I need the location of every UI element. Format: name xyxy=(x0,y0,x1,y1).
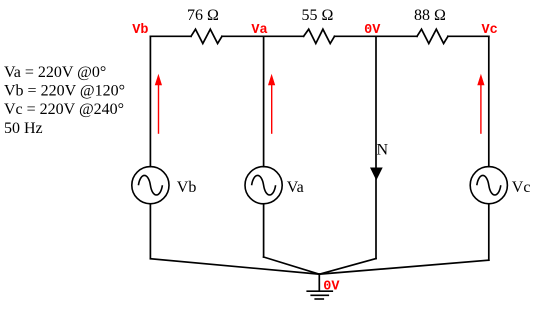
svg-text:88 Ω: 88 Ω xyxy=(414,7,446,24)
svg-text:Vb = 220V @120°: Vb = 220V @120° xyxy=(4,83,125,100)
wire neutral to ground junction xyxy=(319,259,376,275)
svg-text:N: N xyxy=(377,142,389,159)
wire Vc vertical lower xyxy=(488,204,490,260)
svg-text:Vb: Vb xyxy=(132,23,148,38)
resistor R2 55 ohm xyxy=(304,29,335,43)
svg-text:Vc = 220V @240°: Vc = 220V @240° xyxy=(4,101,124,118)
current arrow Vc (red, up) xyxy=(478,75,484,134)
svg-text:Vb: Vb xyxy=(177,179,197,196)
wire Vb to ground junction xyxy=(150,259,319,275)
svg-text:Vc: Vc xyxy=(482,23,498,38)
svg-text:0V: 0V xyxy=(364,23,381,38)
wire Vb vertical lower xyxy=(149,204,151,259)
svg-text:Va = 220V @0°: Va = 220V @0° xyxy=(4,64,106,81)
wire Vc vertical upper xyxy=(488,36,490,166)
svg-text:Vc: Vc xyxy=(512,179,531,196)
wire R3 to Vc corner xyxy=(448,35,489,37)
wire Vb vertical upper xyxy=(149,36,151,166)
AC source Va xyxy=(245,167,282,204)
wire ground stub xyxy=(318,274,320,291)
wire Vc to ground junction xyxy=(319,260,489,274)
AC source Vc xyxy=(470,167,507,204)
AC source Vb xyxy=(132,167,169,204)
wire neutral N vertical xyxy=(375,36,377,258)
wire R2 to R3 xyxy=(335,35,418,37)
svg-text:Va: Va xyxy=(251,23,267,38)
wire Va vertical lower xyxy=(263,204,265,257)
svg-text:76 Ω: 76 Ω xyxy=(187,7,219,24)
wire R1 to R2 xyxy=(222,35,304,37)
svg-text:50 Hz: 50 Hz xyxy=(4,120,43,137)
wire Va vertical upper xyxy=(263,36,265,166)
wire Va to ground junction xyxy=(264,257,320,274)
svg-text:Va: Va xyxy=(287,179,304,196)
current arrow Va (red, up) xyxy=(268,75,274,134)
wire top rail segment Vb to R1 xyxy=(150,35,191,37)
current arrow Vb (red, up) xyxy=(155,75,161,134)
ground symbol xyxy=(307,291,332,299)
resistor R3 88 ohm xyxy=(417,29,448,43)
neutral arrow (black, down) xyxy=(371,168,382,179)
svg-text:0V: 0V xyxy=(323,279,340,294)
resistor R1 76 ohm xyxy=(191,29,222,43)
svg-text:55 Ω: 55 Ω xyxy=(302,7,334,24)
